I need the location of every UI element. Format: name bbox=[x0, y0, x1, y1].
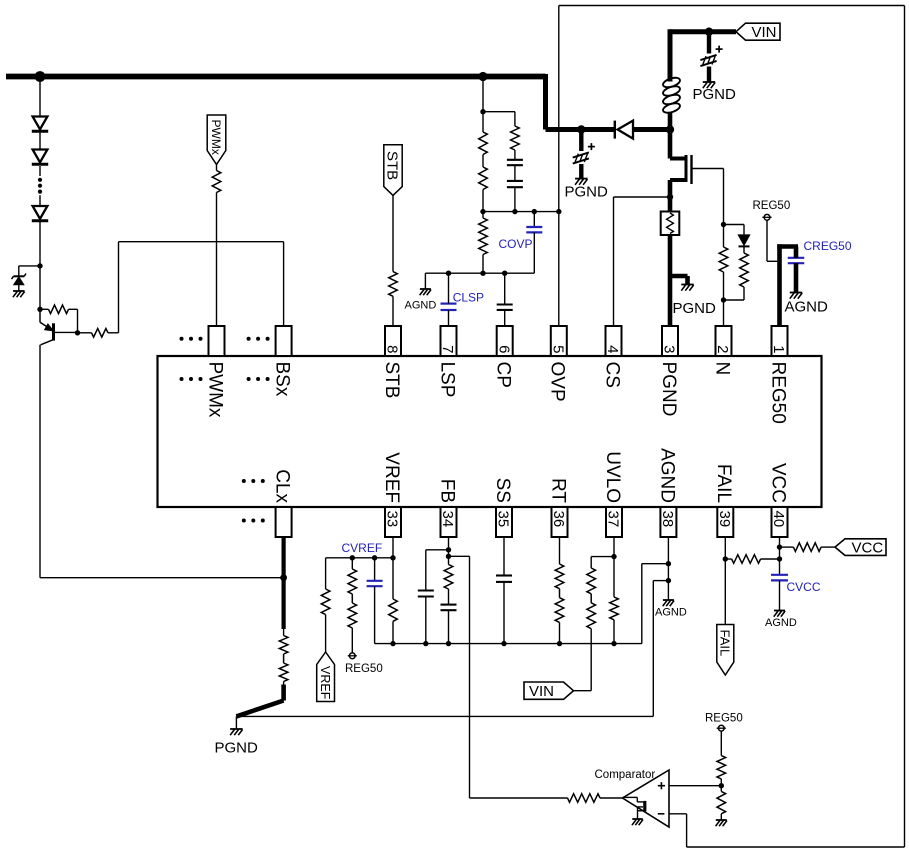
wire LED string cathode down bbox=[39, 222, 41, 309]
wire resistor to REG50 terminal bbox=[351, 628, 353, 653]
wire resistor to base corner bbox=[69, 309, 78, 333]
resistor Q1 base to BSx bbox=[92, 329, 109, 338]
wire to VREF flag resistor bbox=[325, 558, 327, 589]
svg-text:AGND: AGND bbox=[655, 607, 687, 619]
pin 36 RT (bottom) bbox=[547, 478, 568, 537]
capacitor FB series bbox=[441, 605, 457, 611]
wire to REG50 pull resistor bbox=[351, 558, 353, 569]
IC U1 body bbox=[158, 356, 822, 507]
svg-text:LSP: LSP bbox=[436, 362, 457, 398]
wire AGND pin down bbox=[667, 537, 669, 600]
label REG50 terminal bbox=[753, 200, 791, 212]
wire resistor to bottom rail bbox=[392, 621, 394, 643]
wire resistor to STB pin bbox=[392, 296, 394, 326]
ground AGND at LSP rail bbox=[420, 289, 431, 295]
wire source to CS pin bbox=[614, 197, 671, 326]
node mid rail COVP bbox=[532, 209, 537, 214]
resistor snubber bbox=[511, 126, 520, 150]
thick wire source to sense resistor bbox=[668, 197, 673, 212]
resistor OVP upper A bbox=[479, 132, 488, 155]
label PGND star bbox=[215, 740, 259, 757]
VIN corner down bbox=[668, 29, 673, 81]
output cap lower lead bbox=[579, 164, 583, 178]
wire MOSFET source down bbox=[668, 180, 673, 199]
junction dot bus/OVP divider bbox=[478, 72, 487, 81]
node VREF rail left bbox=[350, 555, 355, 560]
resistor FB series bbox=[444, 565, 453, 590]
wire comparator - feedback to OVP bbox=[559, 6, 905, 848]
svg-text:FB: FB bbox=[436, 479, 457, 503]
wire FB to comparator bbox=[449, 556, 470, 798]
wire RT pin down bbox=[559, 537, 561, 564]
thick wire diode to switch node bbox=[633, 127, 670, 132]
label PGND sense bbox=[673, 300, 717, 317]
wire PGND star stub bbox=[235, 716, 237, 729]
node MOSFET source bbox=[667, 194, 673, 200]
pin 1 REG50 (top) bbox=[767, 326, 788, 424]
capacitor at CP pin bbox=[497, 305, 513, 310]
pin 3 PGND (top) bbox=[658, 326, 679, 416]
resistor VCC series bbox=[793, 543, 821, 552]
svg-text:COVP: COVP bbox=[499, 237, 533, 251]
wire snubber to mid rail bbox=[514, 187, 516, 211]
label Comparator bbox=[595, 769, 656, 781]
ellipsis dots (more LEDs) bbox=[38, 178, 42, 194]
node mid rail snubber bbox=[512, 209, 517, 214]
wire gate node to N pin bbox=[723, 225, 725, 327]
speed-up diode bbox=[739, 235, 750, 246]
wire FB cap to rail bbox=[448, 610, 450, 643]
wire bottom rail to AGND pin bbox=[642, 564, 669, 644]
ground AGND pin bbox=[663, 600, 674, 606]
node gate RC top bbox=[721, 222, 726, 227]
wire mid rail to lower resistor bbox=[482, 212, 484, 218]
node UVLO divider bbox=[611, 554, 616, 559]
wire comparator + input bbox=[669, 785, 721, 787]
comparator + input marker bbox=[658, 782, 665, 789]
wire bus to OVP divider bbox=[482, 77, 484, 133]
wire UVLO res to rail bbox=[613, 620, 615, 644]
wire OVP feedback vertical bbox=[558, 6, 560, 327]
svg-text:5: 5 bbox=[549, 345, 566, 353]
svg-text:PGND: PGND bbox=[658, 362, 679, 417]
resistor in diode branch bbox=[740, 253, 749, 287]
node FB upper bbox=[446, 547, 451, 552]
wire Q1 collector down bbox=[39, 345, 41, 578]
transistor Q1 (PNP current regulator) bbox=[40, 309, 54, 345]
svg-text:CS: CS bbox=[601, 362, 622, 388]
node bottom rail x425.8 bbox=[423, 641, 428, 646]
svg-text:33: 33 bbox=[384, 511, 401, 528]
resistor VREF output bbox=[321, 589, 330, 615]
wire to CVREF cap bbox=[374, 558, 376, 581]
wire FAIL pin down bbox=[724, 537, 726, 625]
wire rail to CP cap bbox=[504, 273, 506, 304]
wire to zener clamp bbox=[19, 266, 40, 276]
wire VCC pin down bbox=[779, 537, 781, 575]
svg-text:39: 39 bbox=[716, 511, 733, 528]
wire FB comp cap to rail bbox=[425, 597, 427, 644]
wire STB flag down bbox=[392, 195, 394, 271]
wire CLSP to LSP pin bbox=[448, 310, 450, 326]
svg-text:STB: STB bbox=[384, 151, 401, 180]
resistor UVLO lower bbox=[610, 597, 619, 620]
wire FAIL to resistor bbox=[725, 558, 731, 560]
svg-text:PGND: PGND bbox=[673, 300, 717, 317]
capacitor CREG50 bbox=[788, 258, 805, 263]
ellipsis dots outside BSx bbox=[247, 337, 270, 341]
node OVP divider top bbox=[480, 109, 485, 114]
wire D1-D2 bbox=[39, 133, 41, 150]
resistor RT bbox=[555, 564, 564, 622]
svg-text:3: 3 bbox=[661, 345, 678, 353]
node mid rail left bbox=[480, 209, 485, 214]
node gate RC bottom bbox=[721, 297, 726, 302]
svg-text:Comparator: Comparator bbox=[595, 769, 656, 781]
capacitor CSS bbox=[496, 576, 512, 582]
wire SS cap to rail bbox=[503, 582, 505, 644]
svg-text:8: 8 bbox=[384, 345, 401, 353]
wire node to resistor bbox=[40, 308, 49, 310]
svg-text:AGND: AGND bbox=[765, 617, 797, 629]
node CLx / collector wire bbox=[280, 574, 287, 581]
ground below output transistor bbox=[632, 819, 643, 825]
label CVCC bbox=[787, 580, 821, 594]
svg-text:VIN: VIN bbox=[529, 683, 554, 700]
wire resistor to VCC net bbox=[761, 558, 780, 560]
thick output bus wire bbox=[6, 74, 546, 80]
capacitor CVREF bbox=[367, 581, 383, 586]
label REG50 comparator divider bbox=[705, 712, 743, 724]
wire terminal to divider bbox=[720, 731, 722, 756]
svg-text:37: 37 bbox=[605, 511, 622, 528]
terminal REG50 bbox=[762, 214, 771, 220]
node AGND star link bbox=[666, 578, 671, 583]
wire divider to VIN flag bbox=[574, 629, 592, 691]
svg-text:OVP: OVP bbox=[547, 362, 568, 402]
node bottom rail x448.5 bbox=[446, 641, 451, 646]
svg-text:2: 2 bbox=[714, 345, 731, 353]
wire RC branch bottom bbox=[724, 287, 745, 300]
wire COVP to LSP rail bbox=[533, 232, 535, 273]
svg-text:VIN: VIN bbox=[752, 24, 777, 41]
pin PWMx PWMx (top) bbox=[204, 326, 225, 418]
wire base node to Q1 base bbox=[54, 331, 78, 333]
svg-text:VCC: VCC bbox=[852, 540, 884, 557]
wire bottom AGND rail bbox=[393, 643, 642, 645]
inductor L1 (boost coil) bbox=[662, 76, 681, 115]
svg-text:FAIL: FAIL bbox=[713, 464, 734, 503]
node mid rail OVP wire bbox=[556, 209, 561, 214]
ground AGND below CVCC bbox=[774, 611, 785, 617]
svg-text:VREF: VREF bbox=[381, 452, 402, 503]
wire VREF branch rail bbox=[326, 557, 393, 559]
svg-text:34: 34 bbox=[439, 511, 456, 528]
wire VCC to resistor bbox=[780, 546, 794, 548]
capacitor COVP bbox=[526, 227, 542, 232]
label REG50 below VREF bbox=[345, 663, 383, 675]
capacitor snubber 2 bbox=[507, 181, 523, 187]
node VREF rail cap bbox=[372, 555, 377, 560]
node FB lower bbox=[446, 554, 451, 559]
svg-text:REG50: REG50 bbox=[753, 200, 791, 212]
flag FAIL output bbox=[717, 625, 734, 676]
wire resistor to BSx pin bbox=[108, 242, 284, 333]
label VIN sense bbox=[529, 683, 554, 700]
wire RT res to rail bbox=[559, 622, 561, 643]
input electrolytic capacitor lead bbox=[707, 32, 711, 54]
wire between snubber caps bbox=[514, 165, 516, 181]
wire FB res to cap bbox=[448, 589, 450, 605]
ground AGND below CREG50 bbox=[790, 293, 803, 299]
wire LSP rail bbox=[425, 272, 534, 274]
resistor under VREF pin bbox=[389, 599, 398, 621]
resistor on STB line bbox=[389, 272, 398, 297]
svg-text:AGND: AGND bbox=[656, 448, 677, 503]
node bottom rail x393 bbox=[390, 641, 395, 646]
wire divider mid bbox=[720, 779, 722, 792]
terminal REG50 below VREF bbox=[348, 653, 357, 659]
ground below zener bbox=[13, 291, 25, 297]
zener diode clamp bbox=[12, 274, 26, 292]
comparator - input marker bbox=[658, 813, 665, 815]
flag PWMx input bbox=[207, 115, 226, 165]
svg-text:REG50: REG50 bbox=[767, 362, 788, 424]
pin 33 VREF (bottom) bbox=[381, 452, 402, 537]
svg-text:PGND: PGND bbox=[565, 183, 609, 200]
svg-text:REG50: REG50 bbox=[705, 712, 743, 724]
capacitor CLSP bbox=[441, 304, 457, 310]
pin BSx BSx (top) bbox=[272, 326, 293, 397]
thick wire to rectifier diode bbox=[546, 127, 615, 132]
flag VIN sense bbox=[524, 682, 574, 699]
node bottom rail x504 bbox=[501, 641, 506, 646]
pin 6 CP (top) bbox=[493, 326, 514, 388]
junction dot bus/LED string bbox=[35, 71, 46, 82]
label VREF in flag bbox=[318, 666, 332, 700]
wire REG50 terminal to REG50 pin net bbox=[767, 220, 777, 261]
node VCC flag branch bbox=[777, 544, 782, 549]
label VCC in flag bbox=[852, 540, 884, 557]
label CVREF bbox=[342, 541, 383, 555]
label FAIL in flag bbox=[718, 630, 733, 657]
node VREF rail pin bbox=[390, 555, 395, 560]
LED D1 of external LED string bbox=[32, 117, 48, 132]
pin 37 UVLO (bottom) bbox=[602, 451, 623, 537]
wire divider to ground bbox=[720, 814, 722, 820]
wire rail to CLSP bbox=[448, 273, 450, 303]
rectifier diode (boost) bbox=[615, 121, 633, 139]
pin 5 OVP (top) bbox=[547, 326, 568, 402]
thick wire CREG50 to ground bbox=[794, 263, 799, 292]
pin 8 STB (top) bbox=[381, 326, 402, 398]
svg-text:AGND: AGND bbox=[785, 299, 829, 316]
svg-text:CVCC: CVCC bbox=[787, 580, 821, 594]
wire resistor to thick stub bbox=[283, 682, 285, 685]
thick wire sense resistor to PGND pin bbox=[668, 235, 673, 326]
svg-text:PGND: PGND bbox=[215, 740, 259, 757]
flag VIN supply bbox=[736, 23, 780, 40]
pin 35 SS (bottom) bbox=[492, 478, 513, 537]
svg-text:CREG50: CREG50 bbox=[804, 239, 852, 253]
svg-text:38: 38 bbox=[659, 511, 676, 528]
thick wire to MOSFET drain bbox=[668, 130, 673, 159]
node VCC cap branch bbox=[777, 556, 782, 561]
svg-text:VCC: VCC bbox=[767, 463, 788, 503]
wire above D3 bbox=[39, 195, 41, 206]
node bottom rail x614 bbox=[611, 641, 616, 646]
label AGND pin38 bbox=[655, 607, 687, 619]
node divider mid bbox=[719, 783, 724, 788]
svg-text:N: N bbox=[711, 362, 732, 376]
node LSP rail divider bbox=[480, 271, 485, 276]
bus corner down bbox=[543, 74, 548, 130]
wire OVP mid rail bbox=[483, 211, 559, 213]
wire CVREF to bottom rail bbox=[375, 586, 393, 643]
svg-text:CP: CP bbox=[493, 362, 514, 388]
ground PGND star bbox=[230, 729, 243, 735]
label AGND CREG50 bbox=[785, 299, 829, 316]
resistor divider lower bbox=[717, 791, 726, 813]
thick wire to CREG50 top bbox=[777, 244, 798, 249]
thick wire REG50 pin up bbox=[777, 244, 782, 326]
node bottom rail x559.5 bbox=[557, 641, 562, 646]
wire resistor to VCC flag bbox=[821, 546, 835, 548]
ground PGND at sense resistor bbox=[681, 285, 694, 291]
MOSFET Q2 (external switch) bbox=[670, 155, 692, 184]
output electrolytic capacitor lead bbox=[579, 130, 583, 152]
LED D2 bbox=[32, 150, 48, 165]
junction dot VIN/input cap bbox=[705, 28, 713, 36]
pin 34 FB (bottom) bbox=[436, 479, 457, 537]
node FAIL bbox=[723, 556, 728, 561]
svg-text:FAIL: FAIL bbox=[718, 630, 733, 657]
wire lower resistor to LSP rail bbox=[482, 255, 484, 274]
resistor OVP lower bbox=[479, 218, 488, 255]
label STB in flag bbox=[384, 151, 401, 180]
wire UVLO to upper divider bbox=[591, 557, 614, 568]
wire SS pin down bbox=[503, 537, 505, 576]
pin 38 AGND (bottom) bbox=[656, 448, 677, 537]
resistor FAIL pull-up bbox=[732, 555, 761, 564]
svg-text:VREF: VREF bbox=[318, 666, 332, 700]
resistor OVP upper B bbox=[479, 167, 488, 190]
wire below D2 bbox=[39, 166, 41, 176]
pin 40 VCC (bottom) bbox=[767, 463, 788, 537]
pin 7 LSP (top) bbox=[436, 326, 457, 397]
resistor CLx to PGND bbox=[279, 636, 288, 682]
wire FB pin down bbox=[448, 537, 450, 565]
label PGND input cap bbox=[693, 86, 737, 103]
ground comparator divider bbox=[716, 820, 727, 826]
ellipsis dots inside CLx bbox=[242, 479, 265, 483]
wire MOSFET gate to N pin net bbox=[692, 169, 724, 225]
thick VIN wire bbox=[670, 29, 736, 34]
label AGND LSP bbox=[405, 300, 437, 312]
ellipsis dots inside BSx bbox=[247, 377, 270, 381]
wire resistor to comparator output bbox=[600, 797, 623, 799]
svg-text:7: 7 bbox=[439, 345, 456, 353]
ellipsis dots outside CLx bbox=[242, 519, 265, 523]
junction dot switch node bbox=[666, 125, 674, 133]
svg-text:40: 40 bbox=[770, 511, 787, 528]
output electrolytic capacitor bbox=[573, 143, 595, 164]
wire between OVP resistors bbox=[482, 155, 484, 168]
ellipsis dots inside PWMx bbox=[180, 377, 203, 381]
label PGND output cap bbox=[565, 183, 609, 200]
flag VREF output bbox=[317, 652, 335, 702]
resistor base-emitter of Q1 bbox=[49, 305, 69, 314]
pin 39 FAIL (bottom) bbox=[713, 464, 734, 537]
wire CP cap to CP pin bbox=[504, 310, 506, 326]
svg-text:PGND: PGND bbox=[693, 86, 737, 103]
label CREG50 bbox=[804, 239, 852, 253]
junction dot bus/output cap bbox=[577, 125, 585, 133]
pin CLx CLx (bottom) bbox=[272, 469, 293, 537]
svg-text:1: 1 bbox=[770, 345, 787, 353]
svg-text:BSx: BSx bbox=[272, 362, 293, 397]
input cap lower lead bbox=[707, 67, 711, 82]
svg-text:35: 35 bbox=[495, 511, 512, 528]
svg-text:CLSP: CLSP bbox=[453, 291, 484, 305]
wire FB line to resistor bbox=[470, 797, 568, 799]
node: LED cathode / zener tap bbox=[37, 263, 42, 268]
wire flag to resistor bbox=[216, 165, 218, 171]
LED D3 (last of string) bbox=[32, 206, 48, 221]
wire resistor to PWMx pin bbox=[216, 193, 218, 327]
node LSP rail CP bbox=[502, 271, 507, 276]
wire AGND stub bbox=[424, 273, 426, 288]
label AGND CVCC bbox=[765, 617, 797, 629]
node: Q1 base bbox=[75, 330, 80, 335]
capacitor FB comp bbox=[418, 591, 434, 597]
svg-text:STB: STB bbox=[381, 362, 402, 399]
svg-text:PWMx: PWMx bbox=[204, 362, 225, 418]
wire collector to CLx node bbox=[40, 577, 284, 579]
ground PGND below input cap bbox=[703, 82, 716, 88]
wire snubber res to caps bbox=[514, 150, 516, 160]
wire UVLO pin down bbox=[613, 537, 615, 597]
ground PGND below output cap bbox=[575, 179, 588, 185]
wire from VIN bus to LED string anode bbox=[39, 77, 41, 117]
input electrolytic capacitor bbox=[700, 46, 722, 67]
terminal REG50 comparator bbox=[717, 725, 726, 731]
flag STB input bbox=[384, 145, 402, 196]
node AGND rail link bbox=[666, 561, 671, 566]
resistor on PWMx line bbox=[212, 171, 221, 193]
svg-text:CVREF: CVREF bbox=[342, 541, 383, 555]
wire VREF pin to resistor bbox=[392, 558, 394, 599]
svg-text:UVLO: UVLO bbox=[602, 451, 623, 503]
svg-text:RT: RT bbox=[547, 478, 568, 503]
wire FB to comp cap bbox=[426, 550, 449, 591]
svg-text:6: 6 bbox=[495, 345, 512, 353]
resistor comparator output series bbox=[568, 794, 601, 803]
wire to OVP mid rail bbox=[482, 190, 484, 212]
open-drain output transistor of comparator bbox=[623, 797, 645, 818]
capacitor snubber 1 bbox=[507, 160, 523, 165]
wire VREF pin down bbox=[392, 537, 394, 558]
svg-text:AGND: AGND bbox=[405, 300, 437, 312]
wire PGND star to AGND pin net bbox=[236, 581, 668, 717]
wire diode to resistor bbox=[743, 246, 745, 253]
wire CVCC to ground bbox=[779, 580, 781, 610]
label PWMx in flag bbox=[209, 120, 223, 155]
wire CREG50 top plate bbox=[794, 247, 799, 258]
label VIN in flag bbox=[752, 24, 777, 41]
svg-text:REG50: REG50 bbox=[345, 663, 383, 675]
pin 2 N (top) bbox=[711, 326, 732, 375]
